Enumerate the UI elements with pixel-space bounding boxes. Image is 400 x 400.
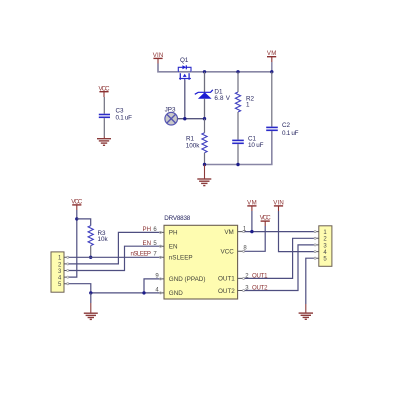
wire VIN down and to Q1 — [158, 64, 178, 72]
supply flag VIN (logic side) — [273, 199, 284, 211]
supply flag VM (logic side) — [247, 199, 257, 211]
label 2 OUT1 — [245, 272, 268, 279]
svg-text:EN: EN — [169, 244, 178, 251]
label 3 OUT2 — [245, 285, 268, 292]
supply flag VCC (IC pin8) — [260, 215, 272, 227]
svg-text:100k: 100k — [186, 142, 201, 149]
resistor R1 100k — [186, 119, 207, 165]
svg-text:PH: PH — [143, 226, 151, 233]
wire bottom rail — [205, 131, 272, 164]
svg-text:10k: 10k — [98, 236, 109, 243]
wire VM flag to rail — [271, 62, 273, 72]
ground (main, below rail) — [197, 165, 211, 186]
svg-text:GND (PPAD): GND (PPAD) — [169, 276, 206, 283]
node junction VCC/R3 — [75, 217, 78, 220]
svg-text:OUT1: OUT1 — [218, 276, 235, 283]
capacitor C1 10uF — [232, 136, 263, 165]
wire VM flag down — [251, 211, 253, 232]
svg-text:C2: C2 — [282, 122, 291, 129]
wire VCC down to connector pin 4 — [69, 210, 77, 277]
svg-text:nSLEEP: nSLEEP — [169, 255, 193, 262]
resistor R3 10k — [88, 226, 108, 258]
wire GND PPAD branch — [144, 279, 159, 293]
node junction R1/ground — [203, 163, 206, 166]
svg-text:6.8 V: 6.8 V — [214, 95, 230, 102]
svg-text:DRV8838: DRV8838 — [164, 215, 190, 222]
svg-text:VCC: VCC — [221, 249, 235, 256]
transistor Q1 (P-MOSFET with body diode) — [178, 57, 191, 80]
wire EN net (pin3 to IC pin5) — [69, 246, 159, 270]
node junction gate/JP3 — [183, 117, 186, 120]
capacitor C2 0.1uF — [266, 72, 298, 165]
svg-text:Q1: Q1 — [180, 57, 189, 64]
label PH 6 — [143, 226, 158, 233]
supply flag VIN (top) — [153, 52, 164, 64]
svg-text:1: 1 — [246, 102, 250, 109]
svg-text:OUT2: OUT2 — [252, 285, 268, 292]
svg-text:OUT1: OUT1 — [252, 272, 268, 279]
connector JP2 (right header) — [314, 226, 332, 266]
wire VCC to IC pin8 — [245, 226, 265, 251]
wire Q1 gate down — [184, 80, 186, 119]
wire VIN net to JP2 pin4 — [279, 211, 315, 252]
resistor R2 1 — [235, 72, 254, 140]
wire GND right (JP2 pin5) — [306, 258, 315, 304]
svg-text:nSLEEP: nSLEEP — [131, 251, 152, 258]
wire VM rail (IC pin1 to JP2 pin1) — [245, 231, 315, 233]
label nSLEEP 7 — [131, 251, 158, 258]
diode D1 6.8V (zener) — [195, 72, 231, 119]
ground (below C3) — [97, 137, 111, 146]
wire OUT1 net — [245, 238, 315, 278]
svg-text:VM: VM — [224, 229, 233, 236]
label EN 5 — [143, 240, 158, 247]
node junction PPAD/GND — [142, 291, 145, 294]
wire nSLEEP net (pin1 to IC pin7) — [69, 256, 159, 258]
svg-text:EN: EN — [143, 240, 151, 247]
connector JP1 (left header) — [51, 252, 69, 292]
wire JP3 to R1 node — [178, 118, 205, 120]
op-amp U1: DRV8838 IC — [159, 215, 244, 299]
supply flag VCC (logic side) — [71, 198, 83, 210]
node junction VM — [250, 230, 253, 233]
svg-text:PH: PH — [169, 230, 178, 237]
node junction VM / C2 — [270, 70, 273, 73]
node junction top of R2 — [236, 70, 239, 73]
wire OUT2 net — [245, 245, 315, 291]
svg-text:0.1 uF: 0.1 uF — [282, 130, 299, 137]
wire GND net (pin5 to IC pin4) — [69, 284, 159, 293]
ground (right) — [299, 313, 313, 319]
capacitor C3 — [99, 97, 132, 137]
wire Q1 to VM node (top rail) — [191, 71, 272, 73]
jumper JP3 — [165, 107, 178, 125]
supply flag VM (top right) — [267, 50, 277, 62]
svg-text:0.1 uF: 0.1 uF — [116, 115, 133, 122]
node junction C1/rail — [236, 163, 239, 166]
ground (logic left) — [84, 293, 98, 320]
svg-text:10 uF: 10 uF — [248, 142, 264, 149]
svg-text:GND: GND — [169, 290, 183, 297]
supply flag VCC (top left) — [99, 85, 111, 97]
node junction top of D1 — [203, 70, 206, 73]
wire VCC to R3 top — [77, 219, 91, 226]
node junction D1/R1 — [203, 117, 206, 120]
wire across Q1 channel — [178, 71, 191, 73]
node junction R3/nSLEEP — [89, 256, 92, 259]
node junction GND/ground — [89, 291, 92, 294]
svg-text:OUT2: OUT2 — [218, 288, 235, 295]
wire PH net (pin2 to IC pin6) — [69, 232, 159, 264]
